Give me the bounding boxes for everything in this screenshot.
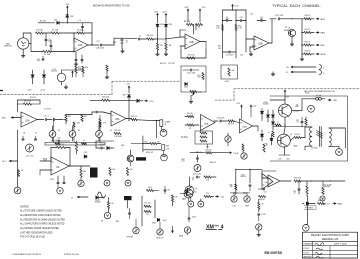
- capacitor C23: [98, 144, 104, 149]
- wire send chain: [292, 19, 303, 54]
- node dots mid: [222, 20, 247, 21]
- svg-text:PAN: PAN: [321, 32, 326, 35]
- resistor above P2: [73, 122, 80, 131]
- svg-text:R66: R66: [116, 221, 119, 223]
- resistor R54: [171, 195, 178, 206]
- resistor R6: [147, 35, 159, 40]
- svg-text:1K: 1K: [189, 128, 192, 130]
- label spkr: [323, 185, 332, 189]
- capacitor C35: [217, 117, 227, 122]
- mark squiggle: [98, 192, 106, 198]
- wire G2 right: [261, 118, 263, 121]
- diode CR15: [270, 134, 273, 145]
- capacitor C13: [275, 15, 293, 20]
- svg-text:C10: C10: [239, 17, 242, 19]
- svg-text:R21: R21: [218, 46, 221, 48]
- svg-text:OUT: OUT: [166, 149, 169, 151]
- svg-text:CR19: CR19: [184, 87, 188, 89]
- svg-text:1N4448: 1N4448: [263, 103, 269, 105]
- svg-text:MON LEV: MON LEV: [156, 238, 164, 240]
- label To P.A.: [181, 136, 189, 139]
- svg-text:ALL POTS ARE LINEAR UNLESS NOT: ALL POTS ARE LINEAR UNLESS NOTED: [20, 210, 62, 213]
- resistor R5: [77, 23, 93, 45]
- resistor R15: [18, 100, 41, 105]
- svg-text:R42 4.7: R42 4.7: [295, 134, 301, 136]
- svg-text:10K: 10K: [78, 69, 82, 71]
- svg-text:D: D: [323, 73, 325, 75]
- mark left edge: [0, 90, 3, 92]
- resistor R14: [106, 65, 108, 74]
- diode CR11: [261, 130, 264, 141]
- svg-text:R16: R16: [68, 116, 71, 118]
- connector REV OUT: [142, 136, 170, 152]
- resistor R71: [305, 117, 307, 127]
- label extra3: [284, 29, 291, 32]
- jack J3: [104, 180, 110, 186]
- part number text: [265, 251, 283, 255]
- diode CR4: [165, 24, 172, 27]
- capacitor C30: [293, 181, 300, 195]
- label phones: [304, 206, 316, 210]
- label extra12: [240, 55, 243, 57]
- svg-text:C28 2.2/35: C28 2.2/35: [96, 47, 105, 49]
- svg-text:C8: C8: [23, 133, 25, 135]
- ground P16: [257, 230, 261, 236]
- resistor R37: [263, 144, 265, 152]
- component hp: [322, 181, 324, 195]
- capacitor C32: [188, 207, 196, 222]
- diode CR13: [272, 118, 275, 130]
- svg-text:R50: R50: [145, 141, 148, 143]
- effects box outline: [181, 66, 206, 92]
- svg-text:© 1988 PEAVEY ELECTRONICS: © 1988 PEAVEY ELECTRONICS: [11, 253, 42, 256]
- capacitor C16: [54, 118, 63, 120]
- svg-text:MAIN: MAIN: [338, 203, 343, 206]
- svg-text:TYPICAL EACH CHANNEL.: TYPICAL EACH CHANNEL.: [272, 4, 321, 8]
- label driver: [240, 175, 246, 179]
- potentiometer P16: [256, 224, 262, 230]
- svg-text:PEAVEY ELECTRONICS CORP: PEAVEY ELECTRONICS CORP: [311, 233, 349, 237]
- wire hp row: [303, 203, 305, 205]
- svg-text:C16: C16: [250, 14, 253, 16]
- label extra2: [288, 28, 290, 30]
- arrow down R54: [172, 226, 174, 233]
- wire pa rail: [273, 127, 305, 156]
- svg-text:ALL RESISTORS IN OHMS UNLESS N: ALL RESISTORS IN OHMS UNLESS NOTED: [20, 218, 65, 221]
- svg-text:4.7: 4.7: [268, 132, 270, 134]
- svg-text:-15V: -15V: [253, 106, 258, 108]
- capacitor C36: [164, 186, 170, 194]
- svg-text:CR9: CR9: [122, 95, 125, 97]
- resistor R26: [109, 168, 116, 176]
- svg-text:U6: U6: [265, 182, 268, 184]
- resistor R60: [185, 124, 199, 130]
- svg-text:220: 220: [206, 193, 209, 195]
- resistor R34: [200, 136, 207, 138]
- svg-text:R17: R17: [84, 116, 87, 118]
- svg-text:4.7K: 4.7K: [264, 145, 268, 147]
- svg-text:C25 2.2/35: C25 2.2/35: [193, 173, 201, 175]
- power +15V arrow top: [65, 4, 70, 9]
- svg-text:6.8K: 6.8K: [83, 171, 87, 173]
- wire mid rail v1: [222, 10, 224, 58]
- op-amp U2A: [21, 112, 37, 127]
- label extra17: [78, 130, 80, 132]
- svg-text:R32 1K: R32 1K: [305, 41, 312, 43]
- label extra25: [285, 97, 290, 99]
- wire U4 out: [69, 165, 90, 166]
- node arrow EFF: [311, 44, 325, 47]
- wire J11 up: [191, 198, 201, 201]
- svg-text:5.6K: 5.6K: [197, 77, 201, 79]
- connector CH jack: [160, 120, 170, 130]
- label extra8: [73, 128, 74, 130]
- resistor R43: [275, 121, 286, 126]
- potentiometer P5: [14, 184, 21, 194]
- capacitor C5 gnd: [81, 55, 83, 63]
- svg-text:DRAWN BY: DRAWN BY: [304, 243, 315, 246]
- wire U1B in: [180, 30, 186, 46]
- svg-text:+15V/.: +15V/.: [224, 81, 230, 83]
- resistor R21: [17, 170, 24, 177]
- resistor R16: [62, 115, 71, 125]
- svg-text:+15V: +15V: [234, 6, 239, 8]
- svg-text:150: 150: [146, 214, 149, 216]
- svg-text:CR4: CR4: [168, 24, 172, 26]
- wire Q6 about: [180, 194, 189, 202]
- wire pa mid: [284, 117, 305, 141]
- svg-text:600: 600: [206, 146, 209, 148]
- svg-text:+: +: [253, 187, 254, 189]
- capacitor C11: [223, 51, 237, 57]
- label extra22: [196, 152, 201, 154]
- label T1: [311, 148, 317, 150]
- diode CR19: [184, 83, 188, 89]
- svg-text:REV: REV: [166, 146, 170, 148]
- capacitor C26: [249, 185, 254, 191]
- wire row2: [31, 49, 74, 52]
- resistor R44: [259, 195, 266, 200]
- svg-text:+15: +15: [286, 67, 289, 69]
- wire fb U2A: [18, 100, 41, 112]
- diode CR5: [31, 70, 34, 84]
- transistor Q6: [184, 189, 193, 198]
- svg-text:C35 2.2/35: C35 2.2/35: [217, 117, 225, 119]
- jack J12: [198, 201, 204, 207]
- svg-text:R24: R24: [252, 46, 255, 48]
- svg-text:+15V: +15V: [65, 4, 70, 6]
- svg-text:ST BY: ST BY: [304, 253, 310, 255]
- power +15V arrow PA: [284, 90, 286, 99]
- diode CR14: [267, 110, 270, 122]
- svg-text:1K: 1K: [83, 140, 85, 142]
- resistor R50 rail: [222, 25, 224, 31]
- jack J11: [188, 201, 194, 207]
- svg-text:-15V: -15V: [202, 7, 207, 9]
- svg-text:C36: C36: [167, 190, 170, 192]
- svg-text:R1 10K: R1 10K: [36, 30, 43, 32]
- svg-text:C28: C28: [97, 41, 100, 43]
- svg-text:R19 10: R19 10: [131, 116, 137, 118]
- svg-text:U7: U7: [271, 182, 274, 184]
- capacitor C6: [139, 38, 147, 40]
- svg-text:MIX: MIX: [113, 42, 117, 44]
- svg-text:R13: R13: [85, 67, 88, 69]
- label extra13: [160, 63, 166, 65]
- svg-text:10: 10: [294, 193, 296, 195]
- wire CR4 col: [165, 16, 167, 23]
- resistor R33: [302, 50, 311, 55]
- svg-text:FS: FS: [101, 221, 103, 223]
- boundary dash line: [0, 81, 360, 100]
- label extra18: [23, 133, 25, 135]
- ground send: [300, 54, 304, 61]
- wire U8A out: [214, 120, 218, 122]
- svg-text:+15V: +15V: [184, 7, 189, 9]
- svg-text:IN: IN: [165, 124, 167, 126]
- wire H row: [90, 100, 130, 101]
- ground CR4: [164, 50, 168, 56]
- wire U8B out: [253, 126, 259, 131]
- potentiometer P11: [133, 219, 139, 234]
- power +15V arrow CR3: [154, 12, 159, 17]
- svg-text:10K: 10K: [175, 197, 179, 199]
- arrow +48V: [328, 99, 338, 102]
- capacitor C12: [257, 17, 266, 22]
- svg-text:-15: -15: [286, 72, 289, 74]
- capacitor C21: [50, 176, 59, 184]
- svg-text:10K: 10K: [112, 169, 116, 171]
- node arrow MON: [311, 53, 326, 56]
- svg-text:+: +: [185, 216, 186, 218]
- svg-text:C20: C20: [57, 137, 60, 139]
- power amp enclosure: [270, 96, 348, 161]
- capacitor C34: [183, 69, 199, 75]
- capacitor C4 gnd: [74, 52, 78, 66]
- svg-text:R22 22K: R22 22K: [58, 144, 66, 146]
- svg-text:-15V: -15V: [27, 90, 32, 92]
- svg-text:R30 1K: R30 1K: [305, 15, 312, 17]
- potentiometer P12: [157, 222, 163, 235]
- arrow MAIN: [333, 203, 343, 206]
- svg-text:MAIN: MAIN: [179, 235, 183, 238]
- svg-text:4.7K: 4.7K: [103, 123, 107, 125]
- op-amp U1A: [74, 38, 88, 52]
- op-amp U3A: [103, 111, 126, 126]
- connector supply a: [319, 65, 325, 70]
- wire net j: [96, 141, 114, 148]
- wire preamp link: [66, 112, 95, 115]
- power +15V arrow G2a: [236, 103, 242, 119]
- node arrow AUX: [311, 18, 325, 21]
- wire to opamp top: [194, 25, 197, 35]
- svg-text:C47: C47: [264, 192, 267, 194]
- arrow supply -15: [286, 71, 317, 74]
- wire supply drops: [188, 12, 200, 23]
- transformer T1 primary: [309, 127, 312, 146]
- wire left rail: [17, 130, 19, 184]
- jack J10: [104, 212, 110, 218]
- label extra5: [294, 145, 298, 148]
- svg-text:1M: 1M: [169, 45, 172, 47]
- resistor R45: [294, 177, 312, 182]
- svg-text:ALL CAPACITORS IN MFD UNLESS N: ALL CAPACITORS IN MFD UNLESS NOTED: [20, 223, 65, 226]
- resistor R56: [258, 199, 265, 212]
- svg-text:EFF: EFF: [321, 45, 326, 47]
- resistor R38: [204, 176, 216, 182]
- label extra20: [121, 145, 124, 147]
- label last ref: [304, 90, 335, 93]
- svg-text:R46 4K: R46 4K: [259, 199, 265, 201]
- ground supply: [271, 72, 275, 76]
- svg-text:R22 10K: R22 10K: [188, 54, 196, 56]
- svg-text:R58 470: R58 470: [206, 149, 212, 151]
- svg-text:P4: P4: [78, 130, 80, 132]
- jack J1 input: [18, 33, 29, 53]
- svg-text:+15V: +15V: [126, 84, 131, 86]
- diode CR18: [157, 219, 167, 222]
- arrow -B: [71, 196, 88, 199]
- op-amp U8A: [201, 115, 216, 131]
- svg-text:C7 22/16: C7 22/16: [44, 109, 51, 111]
- trimmer P6: [26, 144, 35, 158]
- ground P17: [189, 99, 193, 103]
- power +15V label mid: [232, 5, 240, 8]
- potentiometer P9: [241, 153, 247, 159]
- svg-text:R6 470: R6 470: [147, 35, 153, 37]
- svg-text:Q5: Q5: [290, 134, 292, 136]
- resistor R58: [228, 68, 235, 76]
- trimmer P17: [190, 90, 197, 99]
- svg-text:R31 1K: R31 1K: [305, 29, 312, 31]
- wire CR3 lower: [157, 28, 159, 44]
- trimmer P10: [181, 159, 201, 172]
- power +15V arrow U2: [184, 7, 189, 12]
- capacitor C14 circle: [51, 69, 66, 82]
- wire u7 out: [280, 180, 291, 182]
- svg-text:1N4448: 1N4448: [95, 202, 101, 204]
- power +15V arrow H: [126, 84, 131, 94]
- svg-text:LAST REF. DESIGNATOR USED: LAST REF. DESIGNATOR USED: [20, 231, 53, 234]
- resistor R9: [196, 23, 203, 28]
- label MON OUT: [146, 152, 153, 154]
- svg-text:+15V: +15V: [236, 103, 241, 105]
- svg-text:HIGH: HIGH: [245, 206, 249, 208]
- resistor R28: [145, 141, 160, 144]
- jack J4: [125, 180, 131, 186]
- svg-text:LOW: LOW: [232, 206, 236, 208]
- svg-text:100V: 100V: [163, 220, 168, 222]
- svg-text:C23 2.2: C23 2.2: [100, 144, 106, 146]
- diode CR1: [54, 20, 92, 25]
- resistor R28b: [147, 187, 160, 192]
- svg-text:Q1: Q1: [285, 27, 287, 29]
- resistor R8: [184, 21, 194, 26]
- wire U3A out: [126, 118, 131, 120]
- diode CR8: [129, 99, 143, 102]
- wire q2 down: [130, 162, 132, 166]
- zener CR2: [66, 15, 74, 18]
- svg-text:22/16: 22/16: [50, 179, 54, 181]
- label P15: [245, 206, 249, 208]
- resistor R58 pa: [206, 149, 212, 153]
- svg-text:Q1: Q1: [288, 28, 290, 30]
- transformer T1 core: [320, 127, 322, 147]
- svg-text:C: C: [323, 68, 325, 70]
- wire U1A out: [88, 44, 99, 46]
- capacitor C29: [258, 188, 267, 194]
- label P11: [127, 237, 134, 239]
- resistor R55: [204, 193, 214, 198]
- op-amp U4A big: [51, 157, 69, 175]
- svg-text:R52 220: R52 220: [144, 203, 150, 205]
- capacitor C15: [43, 115, 52, 120]
- potentiometer P8: [225, 133, 231, 146]
- diode CR12: [272, 110, 275, 117]
- resistor R46v: [306, 181, 308, 196]
- svg-text:R3 15K: R3 15K: [44, 54, 51, 56]
- resistor R17: [81, 115, 87, 122]
- jack circle P4: [160, 130, 167, 137]
- svg-text:U8A: U8A: [204, 123, 209, 126]
- op-amp U8B: [240, 119, 253, 133]
- svg-text:1000/16: 1000/16: [240, 176, 246, 178]
- svg-text:+15V: +15V: [40, 90, 46, 92]
- potentiometer P2: [69, 126, 76, 141]
- svg-text:U2B: U2B: [258, 44, 263, 46]
- svg-text:4.7K: 4.7K: [110, 203, 114, 205]
- ground CR3: [156, 50, 160, 56]
- svg-text:R63: R63: [149, 187, 152, 189]
- svg-text:APPR BY: APPR BY: [304, 256, 313, 259]
- svg-text:+ C3: + C3: [77, 20, 81, 22]
- svg-text:Q3: Q3: [195, 188, 197, 190]
- svg-text:CK BY: CK BY: [304, 248, 310, 250]
- op-amp U7: [268, 175, 280, 187]
- svg-text:C9: C9: [35, 133, 37, 135]
- capacitor C9: [223, 17, 233, 22]
- resistor R20: [102, 97, 110, 102]
- svg-text:To P.A.: To P.A.: [181, 136, 189, 139]
- svg-text:R20 10K: R20 10K: [102, 97, 110, 99]
- capacitor C19: [34, 136, 36, 140]
- resistor R32: [302, 41, 311, 46]
- label extra24: [305, 92, 310, 95]
- svg-text:-10: -10: [125, 42, 127, 44]
- ground P13: [187, 233, 189, 235]
- wire jack mid: [29, 33, 31, 52]
- fuse F1: [313, 94, 325, 100]
- wire t1 sec out: [333, 128, 346, 149]
- wire pad to summing: [122, 37, 137, 39]
- svg-text:10/16: 10/16: [192, 217, 196, 219]
- svg-text:+15V: +15V: [154, 12, 159, 14]
- svg-text:EM 2097SS: EM 2097SS: [265, 251, 283, 255]
- label extra15: [110, 130, 112, 132]
- ground Q1: [290, 42, 294, 46]
- label J10: [101, 221, 103, 223]
- label extra21: [100, 144, 106, 146]
- svg-text:MON OUT: MON OUT: [146, 152, 153, 154]
- svg-text:R25 47K: R25 47K: [114, 130, 121, 132]
- resistor R53: [144, 210, 151, 215]
- svg-text:.047: .047: [225, 19, 228, 21]
- resistor R39: [230, 184, 237, 190]
- resistor R24: [80, 166, 87, 180]
- transformer T1 secondary: [329, 128, 333, 146]
- label P14: [232, 206, 236, 208]
- potentiometer P13: [184, 227, 190, 233]
